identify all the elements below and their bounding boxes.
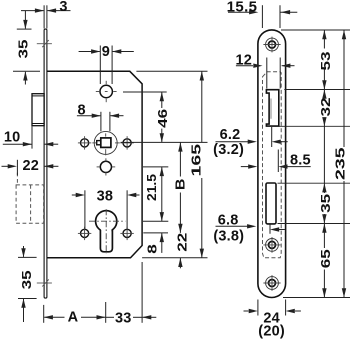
euro profile cylinder hole (96, 211, 117, 232)
svg-text:(20): (20) (258, 324, 285, 340)
top screw hole (266, 38, 279, 51)
svg-text:15.5: 15.5 (227, 0, 258, 16)
svg-text:6.8: 6.8 (218, 212, 239, 228)
dimension 235 (343, 30, 345, 298)
svg-text:B: B (174, 179, 188, 191)
svg-text:A: A (68, 310, 79, 326)
svg-text:22: 22 (23, 158, 40, 174)
svg-text:21.5: 21.5 (145, 174, 159, 201)
right witness lines (275, 30, 350, 298)
follower nose (97, 141, 101, 145)
svg-text:46: 46 (156, 109, 170, 128)
dimension 53 (323, 30, 325, 90)
euro hole centerlines (89, 209, 125, 253)
dimension B (follower to cylinder fixing) (179, 142, 181, 233)
dimension 65 (323, 224, 325, 298)
svg-text:38: 38 (97, 188, 114, 204)
lower hole (100, 161, 111, 172)
follower hub circle (94, 131, 117, 154)
dimension 35 top (strip top to case top) (13, 11, 40, 85)
chain connector (323, 126, 325, 183)
left hub fixing hole (81, 139, 89, 147)
svg-text:(3.8): (3.8) (213, 229, 244, 245)
right cylinder fixing hole (123, 229, 131, 237)
faceplate (front view) (258, 30, 286, 298)
dimension 3 (faceplate thickness) (21, 5, 71, 28)
svg-text:65: 65 (319, 249, 333, 268)
deadbolt cutout (266, 183, 276, 224)
svg-text:12: 12 (236, 53, 253, 69)
svg-text:8.5: 8.5 (290, 153, 311, 169)
middle screw hole (266, 239, 279, 252)
lock case outline (47, 71, 142, 257)
spindle hole (100, 85, 112, 97)
faceplate strip (side view) (44, 29, 47, 298)
follower square (101, 138, 111, 148)
latch cutout (266, 90, 278, 126)
svg-text:35: 35 (17, 39, 31, 58)
dimension 8 (cylinder to fixing hole) (143, 233, 168, 253)
svg-text:9: 9 (102, 44, 110, 60)
deadbolt (dashed, extended position) (16, 173, 43, 224)
svg-text:6.2: 6.2 (220, 127, 241, 143)
dimension 165 (case height) (136, 71, 207, 257)
svg-text:(3.2): (3.2) (213, 142, 244, 158)
follower centerlines (92, 133, 120, 155)
svg-text:32: 32 (319, 97, 333, 116)
strip break mark bottom (37, 279, 52, 286)
dimension 8 (follower square) (77, 112, 124, 132)
lock case hidden outline (dashed) (263, 72, 282, 258)
dimension 35 bottom (case bottom to strip bottom) (18, 246, 37, 322)
dimension 22 (deadbolt throw) (2, 160, 59, 176)
svg-text:165: 165 (190, 144, 204, 177)
dimension 6.2 (3.2) (216, 127, 288, 147)
svg-text:35: 35 (319, 194, 333, 213)
right hub fixing hole (123, 139, 131, 147)
svg-text:10: 10 (4, 129, 21, 145)
svg-text:22: 22 (176, 233, 190, 252)
latch bolt (32, 94, 44, 126)
dimension 24 (20) (244, 300, 301, 316)
dimension 6.8 (3.8) (216, 224, 285, 234)
svg-text:235: 235 (334, 147, 348, 180)
dimension 12 (latch cutout width) (236, 58, 295, 89)
svg-text:35: 35 (20, 270, 34, 289)
dimension 38 (cylinder fixing holes spacing) (72, 190, 140, 229)
dimension 8.5 (241, 150, 311, 173)
svg-text:53: 53 (319, 51, 333, 70)
svg-text:3: 3 (59, 0, 67, 15)
bottom screw hole (266, 277, 279, 290)
dimension 21.5 (follower to lower hole) (143, 167, 168, 221)
dimension 35 (323, 183, 325, 223)
svg-text:8: 8 (77, 103, 85, 119)
svg-text:8: 8 (145, 244, 159, 254)
dimension 46 (spindle to follower) (121, 92, 208, 142)
svg-text:33: 33 (115, 311, 132, 327)
dimension 32 (323, 90, 325, 127)
left cylinder fixing hole (81, 229, 89, 237)
strip break mark top (37, 40, 52, 47)
dimension 15.5 (228, 5, 297, 28)
dimension A / 33 (bottom chain) (44, 262, 157, 323)
dimension 22 bottom (fixing hole to case bottom) (179, 258, 181, 269)
dimension 10 (latch projection) (3, 126, 58, 148)
dimension 9 (spindle hole dia) (79, 46, 134, 85)
